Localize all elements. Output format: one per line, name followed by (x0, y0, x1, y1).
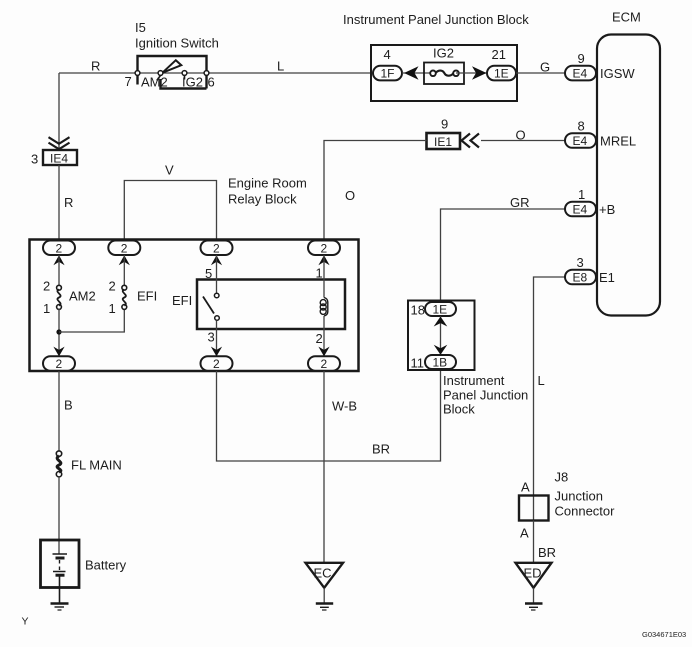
wire from IE1 left to relay block connector (O vertical) (324, 141, 427, 242)
svg-text:Battery: Battery (85, 558, 127, 573)
contact pin 6 (204, 71, 209, 76)
wire EC triangle to ground symbol (323, 588, 325, 603)
switch lever (162, 60, 181, 73)
svg-text:Y: Y (22, 616, 29, 628)
svg-text:Connector: Connector (555, 504, 616, 519)
svg-text:ECM: ECM (612, 10, 641, 25)
wire B from relay block to FL MAIN (59, 371, 73, 452)
ground symbol ED (525, 604, 543, 611)
arrow up into block (O) (318, 255, 329, 265)
svg-text:5: 5 (205, 266, 212, 281)
svg-text:L: L (538, 373, 545, 388)
svg-text:I5: I5 (135, 20, 146, 35)
svg-text:BR: BR (372, 442, 390, 457)
svg-text:3: 3 (577, 255, 584, 270)
switch blade (203, 297, 214, 314)
svg-text:9: 9 (578, 51, 585, 66)
svg-text:Junction: Junction (555, 489, 603, 504)
svg-text:B: B (64, 398, 73, 413)
engine room relay block box (30, 240, 359, 372)
svg-text:E4: E4 (573, 134, 588, 148)
svg-text:6: 6 (208, 75, 215, 90)
svg-text:AM2: AM2 (141, 75, 168, 90)
svg-text:+B: +B (599, 202, 615, 217)
wire BR from relay block to instrument panel junction block (217, 370, 441, 461)
svg-text:R: R (91, 59, 100, 74)
connector E4 pin 1 +B (565, 187, 615, 217)
junction connector J8 (519, 470, 615, 541)
connector E4 pin 8 MREL (565, 119, 636, 149)
svg-text:2: 2 (109, 279, 116, 294)
connector IE1 pin 9 (427, 117, 461, 150)
relay block bottom connector 2 (W-B) (308, 356, 340, 371)
ignition switch SW1 (I5) (125, 56, 215, 90)
svg-text:EFI: EFI (172, 293, 192, 308)
fuse EFI (109, 279, 158, 317)
svg-text:E4: E4 (573, 67, 588, 81)
connector IE4 pin 3 (31, 150, 77, 167)
ground EC (306, 563, 344, 588)
wire pin 2 out of coil (316, 316, 325, 357)
svg-text:O: O (345, 188, 355, 203)
relay block bottom connector 2 (BR) (201, 356, 233, 371)
wire AM2 to bottom connector with junction (58, 309, 60, 357)
double chevron into IE4 (49, 137, 70, 149)
svg-text:2: 2 (56, 241, 63, 255)
svg-text:2: 2 (316, 331, 323, 346)
wire pin 5 into relay (205, 255, 217, 293)
label Instrument Panel Junction Block (small) (443, 373, 528, 417)
wire fuse to 1E (456, 72, 487, 74)
svg-text:BR: BR (538, 545, 556, 560)
svg-text:A: A (521, 480, 530, 495)
svg-text:R: R (64, 195, 73, 210)
svg-text:7: 7 (125, 74, 132, 89)
label I5 Ignition Switch (135, 20, 219, 51)
relay block top connector 2 (R in) (43, 241, 75, 256)
arrow up into block (R) (53, 255, 64, 265)
wire to EFI fuse (123, 255, 125, 286)
svg-text:9: 9 (441, 117, 448, 132)
wire L from ECM E1 down to ED ground (534, 277, 567, 496)
svg-text:G: G (540, 60, 550, 75)
connector E8 pin 3 E1 (565, 255, 615, 285)
svg-text:IGSW: IGSW (600, 66, 635, 81)
svg-text:18: 18 (411, 303, 425, 318)
connector 1F pin 4 (373, 47, 402, 81)
EFI relay box (172, 280, 345, 330)
fuse IG2 (424, 46, 464, 85)
wire to AM2 fuse (58, 255, 60, 286)
svg-text:2: 2 (321, 241, 328, 255)
svg-text:2: 2 (321, 357, 328, 371)
svg-text:1: 1 (109, 301, 116, 316)
svg-text:ED: ED (524, 566, 542, 581)
arrow down out of block (BR) (211, 347, 222, 357)
svg-text:1E: 1E (494, 67, 509, 81)
wire R from IE4 down to relay block (59, 165, 73, 241)
svg-text:V: V (165, 163, 174, 178)
wire FL MAIN to battery (58, 476, 60, 554)
instrument panel junction block 1 (fuse block) (371, 45, 517, 101)
svg-text:G034671E03: G034671E03 (642, 630, 686, 639)
arrow down out of block (W-B) (318, 347, 329, 357)
fuse AM2 (43, 279, 96, 317)
connector 1E pin 18 (411, 302, 457, 318)
wire O from IE1 to ECM MREL (481, 128, 566, 143)
svg-text:1E: 1E (433, 303, 448, 317)
svg-text:L: L (277, 59, 284, 74)
relay block top connector 2 (V right) (201, 241, 233, 256)
wire battery to ground (59, 575, 61, 603)
svg-text:2: 2 (56, 357, 63, 371)
svg-text:IG2: IG2 (182, 75, 203, 90)
svg-text:EC: EC (314, 566, 332, 581)
wire R from ignition switch corner down to IE4 (58, 73, 60, 150)
wire V loop between relay block connectors (124, 163, 216, 242)
connector 1E pin 21 (487, 47, 516, 81)
arrow down out of block (B) (53, 347, 64, 357)
arrow up into block (V left) (119, 255, 130, 265)
relay block top connector 2 (O) (308, 241, 340, 256)
svg-text:MREL: MREL (600, 134, 636, 149)
svg-text:1F: 1F (381, 67, 395, 81)
wire W-B from relay block to EC ground (324, 371, 357, 563)
svg-text:Ignition Switch: Ignition Switch (135, 36, 219, 51)
relay block top connector 2 (V left) (108, 241, 140, 256)
ground symbol EC (316, 604, 333, 611)
svg-text:2: 2 (213, 241, 220, 255)
wire G from 1E to ECM IGSW (516, 60, 566, 75)
svg-text:3: 3 (208, 330, 215, 345)
wire 1E to 1B inside block (440, 316, 442, 355)
wire pin 1 into relay coil (316, 255, 325, 298)
wire junction to EFI fuse bottom (59, 309, 124, 332)
wire J8 to ED ground (BR) (534, 521, 557, 563)
svg-text:IE4: IE4 (50, 151, 68, 165)
svg-text:2: 2 (213, 357, 220, 371)
svg-text:4: 4 (384, 47, 391, 62)
svg-text:Block: Block (443, 402, 475, 417)
contact AM2 (158, 71, 163, 76)
svg-text:EFI: EFI (137, 289, 157, 304)
arrow up into block (V right) (211, 255, 222, 265)
double chevron at IE1 (462, 134, 480, 148)
svg-text:21: 21 (492, 47, 506, 62)
svg-text:O: O (516, 128, 526, 143)
svg-text:1: 1 (316, 266, 323, 281)
label Engine Room Relay Block (228, 176, 307, 207)
ground ED (516, 563, 552, 588)
arrow down above 1B (434, 345, 448, 355)
wire pin 3 out of relay (208, 321, 217, 358)
svg-text:1: 1 (578, 187, 585, 202)
wire ED triangle to ground symbol (533, 588, 535, 603)
svg-text:2: 2 (121, 241, 128, 255)
svg-text:2: 2 (43, 279, 50, 294)
svg-text:8: 8 (578, 119, 585, 134)
arrow into 1E (472, 66, 487, 79)
svg-text:FL MAIN: FL MAIN (71, 458, 122, 473)
svg-text:GR: GR (510, 195, 530, 210)
wire GR from junction block to ECM +B (441, 195, 567, 301)
svg-text:IE1: IE1 (434, 135, 452, 149)
contact IG2 (182, 71, 187, 76)
svg-text:J8: J8 (555, 470, 569, 485)
junction node (56, 329, 61, 334)
wire R from node A to ignition switch pin 7 (y=73 main top wire) (59, 59, 372, 74)
svg-text:Engine Room: Engine Room (228, 176, 307, 191)
relay switch contacts (203, 293, 219, 320)
svg-text:11: 11 (411, 356, 425, 371)
svg-text:3: 3 (31, 152, 38, 167)
svg-text:Instrument Panel Junction Bloc: Instrument Panel Junction Block (343, 12, 529, 27)
svg-text:1: 1 (43, 301, 50, 316)
relay coil (320, 298, 328, 317)
svg-text:E4: E4 (573, 203, 588, 217)
svg-text:E1: E1 (599, 270, 615, 285)
fusible link FL MAIN (56, 451, 122, 477)
wire 1F to fuse (402, 72, 432, 74)
instrument panel junction block 2 (408, 301, 475, 371)
connector 1B pin 11 (411, 355, 457, 371)
svg-text:A: A (520, 526, 529, 541)
arrow into 1F (404, 66, 419, 79)
svg-text:Panel Junction: Panel Junction (443, 388, 528, 403)
relay block bottom connector 2 (B) (43, 356, 75, 371)
svg-text:1B: 1B (433, 356, 448, 370)
svg-text:W-B: W-B (332, 399, 357, 414)
connector E4 pin 9 IGSW (565, 51, 635, 81)
ECM box (597, 35, 660, 316)
svg-text:AM2: AM2 (69, 289, 96, 304)
svg-text:Instrument: Instrument (443, 373, 505, 388)
contact pin 7 (135, 71, 140, 76)
battery (41, 540, 127, 588)
ground below battery (51, 604, 69, 611)
svg-text:Relay Block: Relay Block (228, 192, 297, 207)
arrow up below 1E (434, 317, 448, 327)
svg-text:IG2: IG2 (433, 46, 454, 61)
svg-text:E8: E8 (573, 271, 588, 285)
